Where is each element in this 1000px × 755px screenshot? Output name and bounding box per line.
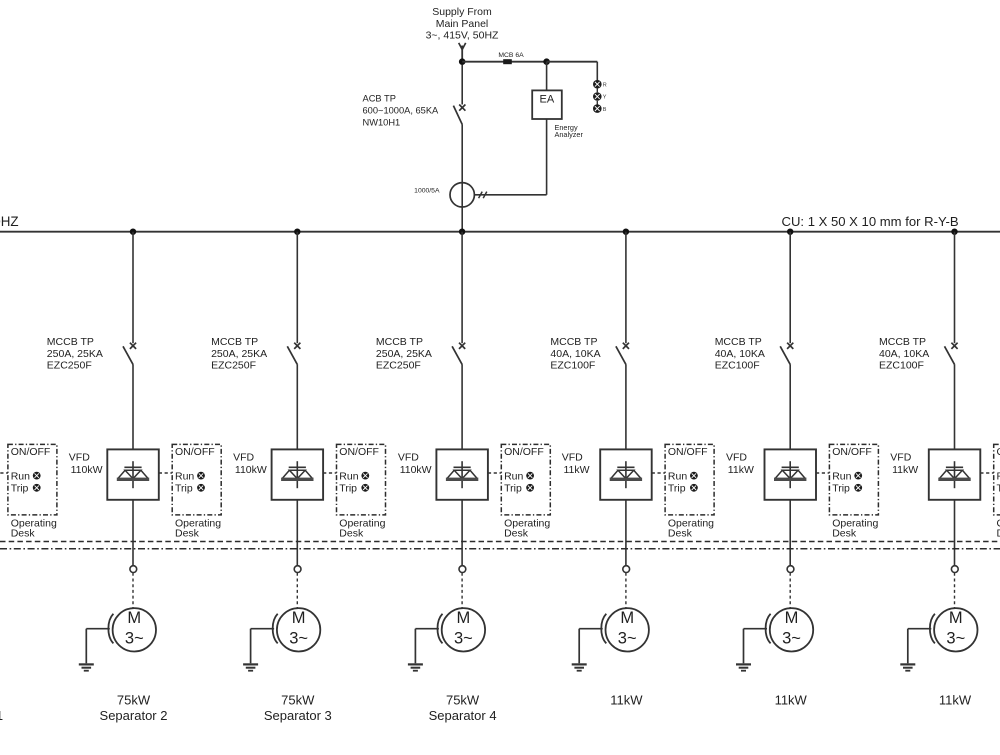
desk boundary dash-dot line [0, 548, 1000, 550]
breaker MCCB feeder 3 [287, 343, 300, 450]
svg-text:50HZ: 50HZ [0, 214, 19, 229]
wire: VFD 4 to desk box (dashed) [488, 472, 501, 474]
svg-text:Desk: Desk [11, 528, 36, 540]
wire: VFD 3 to terminal [296, 500, 298, 566]
svg-text:Main Panel: Main Panel [436, 18, 489, 30]
breaker MCCB feeder 6 [780, 343, 793, 450]
MCCB label feeder 7 [879, 336, 929, 372]
wire: terminal to motor (dashed) feeder 7 [954, 573, 956, 608]
lamp Run feeder 5 [690, 472, 698, 480]
svg-text:EZC100F: EZC100F [715, 359, 760, 371]
svg-text:Desk: Desk [504, 528, 529, 540]
svg-text:Desk: Desk [175, 528, 200, 540]
svg-text:M: M [292, 609, 306, 627]
svg-text:MCB 6A: MCB 6A [498, 52, 524, 59]
wire: VFD 4 to terminal [461, 500, 463, 566]
lamp Run feeder 2 [197, 472, 205, 480]
svg-text:Trip: Trip [504, 482, 522, 494]
wire: node J1 to node J2 [462, 61, 546, 63]
lamp Trip feeder 6 [854, 484, 862, 492]
VFD U5 [600, 449, 652, 499]
wire: terminal to motor (dashed) feeder 4 [461, 573, 463, 608]
MCCB label feeder 6 [715, 336, 765, 372]
wire between lamps [596, 101, 598, 105]
svg-text:VFD: VFD [890, 452, 911, 464]
lamp Run feeder 4 [526, 472, 534, 480]
svg-text:ON/OFF: ON/OFF [668, 446, 708, 458]
svg-text:75kW: 75kW [117, 693, 151, 708]
svg-text:Desk: Desk [668, 528, 693, 540]
VFD label feeder 7 [890, 452, 918, 477]
CT 1000/5A [414, 183, 474, 232]
VFD U3 [272, 449, 324, 499]
wire: terminal to motor (dashed) feeder 2 [132, 573, 134, 608]
wire: VFD 3 to desk box (dashed) [323, 472, 336, 474]
svg-text:11kW: 11kW [775, 693, 808, 708]
ground feeder 7 [900, 629, 931, 671]
lamp Trip feeder 2 [197, 484, 205, 492]
MCCB label feeder 3 [211, 336, 267, 372]
svg-text:B: B [603, 107, 607, 113]
ground feeder 5 [572, 629, 603, 671]
terminal circle feeder 2 [130, 566, 137, 573]
terminal circle feeder 5 [623, 566, 630, 573]
lamp Y [593, 92, 607, 101]
MCCB label feeder 4 [376, 336, 432, 372]
VFD U6 [765, 449, 817, 499]
breaker MCCB feeder 4 [452, 343, 465, 450]
svg-text:11kW: 11kW [564, 464, 590, 476]
node bus junction feeder 5 [623, 229, 629, 235]
svg-text:MCCB TP: MCCB TP [211, 336, 258, 348]
VFD U4 [436, 449, 488, 499]
svg-text:Run: Run [339, 470, 358, 482]
operating desk box feeder 1 [8, 444, 57, 515]
wire: VFD 6 to desk box (dashed) [816, 472, 829, 474]
svg-text:Trip: Trip [175, 482, 193, 494]
svg-text:11kW: 11kW [892, 464, 918, 476]
motor earth arc feeder 5 [601, 614, 606, 644]
supply arrow [459, 43, 466, 59]
ground feeder 3 [243, 629, 274, 671]
lamp Run feeder 3 [361, 472, 369, 480]
breaker MCCB feeder 5 [616, 343, 629, 450]
operating desk label feeder 5 [668, 518, 714, 540]
svg-text:11kW: 11kW [939, 693, 972, 708]
CT secondary marks [479, 192, 487, 199]
svg-text:110kW: 110kW [400, 464, 432, 476]
supply label [426, 6, 499, 42]
VFD label feeder 2 [69, 452, 103, 477]
svg-text:ON/OFF: ON/OFF [11, 446, 51, 458]
svg-text:MCCB TP: MCCB TP [879, 336, 926, 348]
desk boundary dashed line [0, 541, 1000, 543]
ground feeder 4 [408, 629, 439, 671]
motor earth arc feeder 4 [437, 614, 442, 644]
motor earth arc feeder 7 [930, 614, 935, 644]
svg-text:3~, 415V, 50HZ: 3~, 415V, 50HZ [426, 30, 499, 42]
wire: VFD 2 to desk box (dashed) [159, 472, 172, 474]
lamp Run feeder 1 [33, 472, 41, 480]
svg-text:EZC100F: EZC100F [550, 359, 595, 371]
svg-text:MCCB TP: MCCB TP [376, 336, 423, 348]
svg-text:250A, 25KA: 250A, 25KA [47, 348, 103, 360]
node bus junction feeder 3 [294, 229, 300, 235]
wire: VFD 5 to desk box (dashed) [652, 472, 665, 474]
wire: VFD 1 to desk box (dashed) [0, 472, 8, 474]
node bus junction feeder 6 [787, 229, 793, 235]
lamp R [593, 80, 607, 89]
svg-text:40A, 10KA: 40A, 10KA [550, 348, 600, 360]
svg-text:VFD: VFD [398, 452, 419, 464]
svg-text:Separator 2: Separator 2 [100, 708, 168, 723]
wire: node J2 to lamp branch [547, 61, 598, 63]
MCCB label feeder 2 [47, 336, 103, 372]
wire: VFD 6 to terminal [789, 500, 791, 566]
svg-text:VFD: VFD [69, 452, 90, 464]
svg-text:ON/OFF: ON/OFF [504, 446, 544, 458]
fuse MCB 6A [498, 52, 524, 64]
svg-text:Desk: Desk [339, 528, 364, 540]
svg-text:M: M [457, 609, 471, 627]
svg-text:Trip: Trip [997, 482, 1000, 494]
lamp Trip feeder 4 [526, 484, 534, 492]
svg-text:MCCB TP: MCCB TP [47, 336, 94, 348]
svg-text:NW10H1: NW10H1 [363, 117, 401, 127]
svg-text:Trip: Trip [832, 482, 850, 494]
motor M6 [770, 608, 813, 651]
svg-text:3~: 3~ [618, 630, 637, 648]
svg-text:3~: 3~ [289, 630, 308, 648]
svg-text:110kW: 110kW [235, 464, 267, 476]
wire: EA to CT [474, 119, 546, 195]
svg-text:EZC250F: EZC250F [47, 359, 92, 371]
svg-text:75kW: 75kW [446, 693, 480, 708]
motor earth arc feeder 6 [766, 614, 771, 644]
svg-text:Run: Run [504, 470, 523, 482]
svg-text:ACB TP: ACB TP [363, 93, 396, 103]
operating desk box feeder 2 [172, 444, 221, 515]
svg-text:Separator 1: Separator 1 [0, 708, 3, 723]
motor earth arc feeder 3 [273, 614, 278, 644]
operating desk box feeder 6 [829, 444, 878, 515]
wire: VFD 7 to desk box (dashed) [980, 472, 993, 474]
VFD U7 [929, 449, 981, 499]
terminal circle feeder 3 [294, 566, 301, 573]
wire: terminal to motor (dashed) feeder 6 [789, 573, 791, 608]
svg-text:EA: EA [540, 94, 555, 106]
operating desk box feeder 4 [501, 444, 550, 515]
svg-text:1000/5A: 1000/5A [414, 188, 440, 195]
lamp Trip feeder 3 [361, 484, 369, 492]
svg-text:Desk: Desk [997, 528, 1000, 540]
svg-text:ON/OFF: ON/OFF [997, 446, 1000, 458]
MCCB label feeder 5 [550, 336, 600, 372]
wire: terminal to motor (dashed) feeder 3 [296, 573, 298, 608]
svg-text:600~1000A, 65KA: 600~1000A, 65KA [363, 105, 440, 115]
operating desk label feeder 1 [11, 518, 57, 540]
wire between lamps [596, 89, 598, 93]
svg-text:Separator 4: Separator 4 [429, 708, 497, 723]
wire: bus to MCCB feeder 5 [625, 232, 627, 344]
svg-text:3~: 3~ [125, 630, 144, 648]
svg-text:40A, 10KA: 40A, 10KA [879, 348, 929, 360]
svg-text:Run: Run [668, 470, 687, 482]
VFD label feeder 3 [233, 452, 267, 477]
svg-text:MCCB TP: MCCB TP [550, 336, 597, 348]
svg-text:40A, 10KA: 40A, 10KA [715, 348, 765, 360]
lamp Run feeder 6 [854, 472, 862, 480]
operating desk label feeder 2 [175, 518, 221, 540]
bus bar [0, 231, 1000, 233]
energy analyzer U-EA [532, 62, 583, 139]
lamp Trip feeder 1 [33, 484, 41, 492]
motor M3 [277, 608, 320, 651]
svg-text:VFD: VFD [562, 452, 583, 464]
VFD label feeder 4 [398, 452, 432, 477]
svg-text:Analyzer: Analyzer [555, 130, 584, 139]
lamp Trip feeder 5 [690, 484, 698, 492]
svg-text:250A, 25KA: 250A, 25KA [211, 348, 267, 360]
svg-text:M: M [785, 609, 799, 627]
svg-text:Run: Run [11, 470, 30, 482]
svg-text:MCCB TP: MCCB TP [715, 336, 762, 348]
lamp B [593, 104, 607, 113]
wire: VFD 5 to terminal [625, 500, 627, 566]
operating desk label feeder 7 [997, 518, 1000, 540]
svg-text:VFD: VFD [726, 452, 747, 464]
svg-text:11kW: 11kW [728, 464, 754, 476]
svg-text:Supply From: Supply From [432, 6, 492, 18]
wire: terminal to motor (dashed) feeder 5 [625, 573, 627, 608]
breaker ACB [453, 65, 465, 183]
wire: bus to MCCB feeder 2 [132, 232, 134, 344]
svg-text:3~: 3~ [782, 630, 801, 648]
wire: VFD 2 to terminal [132, 500, 134, 566]
wire: bus to MCCB feeder 7 [954, 232, 956, 344]
VFD U2 [107, 449, 159, 499]
svg-text:Y: Y [603, 95, 607, 101]
node bus junction feeder 4 [459, 229, 465, 235]
breaker MCCB feeder 7 [945, 343, 958, 450]
node bus junction feeder 7 [951, 229, 957, 235]
ACB label [363, 93, 440, 127]
operating desk box feeder 5 [665, 444, 714, 515]
svg-text:R: R [603, 82, 607, 88]
svg-text:Run: Run [175, 470, 194, 482]
breaker MCCB feeder 2 [123, 343, 136, 450]
node J2 [543, 58, 550, 65]
terminal circle feeder 4 [459, 566, 466, 573]
svg-text:Run: Run [832, 470, 851, 482]
svg-text:EZC250F: EZC250F [376, 359, 421, 371]
svg-text:EZC250F: EZC250F [211, 359, 256, 371]
svg-text:Trip: Trip [668, 482, 686, 494]
svg-text:3~: 3~ [454, 630, 473, 648]
svg-text:Separator 3: Separator 3 [264, 708, 332, 723]
ground feeder 6 [736, 629, 767, 671]
motor earth arc feeder 2 [108, 614, 113, 644]
wire: VFD 7 to terminal [954, 500, 956, 566]
VFD label feeder 6 [726, 452, 754, 477]
svg-text:75kW: 75kW [281, 693, 315, 708]
svg-text:ON/OFF: ON/OFF [175, 446, 215, 458]
operating desk label feeder 4 [504, 518, 550, 540]
wire: bus to MCCB feeder 3 [296, 232, 298, 344]
terminal circle feeder 6 [787, 566, 794, 573]
wire: bus to MCCB feeder 6 [789, 232, 791, 344]
svg-text:ON/OFF: ON/OFF [339, 446, 379, 458]
motor M7 [934, 608, 977, 651]
svg-text:M: M [127, 609, 141, 627]
svg-text:Trip: Trip [339, 482, 357, 494]
motor M5 [606, 608, 649, 651]
operating desk label feeder 3 [339, 518, 385, 540]
svg-text:250A, 25KA: 250A, 25KA [376, 348, 432, 360]
node bus junction feeder 2 [130, 229, 136, 235]
svg-text:M: M [949, 609, 963, 627]
svg-text:Run: Run [997, 470, 1000, 482]
svg-text:3~: 3~ [946, 630, 965, 648]
terminal circle feeder 7 [951, 566, 958, 573]
svg-text:110kW: 110kW [71, 464, 103, 476]
operating desk box feeder 7 [994, 444, 1000, 515]
svg-text:ON/OFF: ON/OFF [832, 446, 872, 458]
operating desk box feeder 3 [337, 444, 386, 515]
operating desk label feeder 6 [832, 518, 878, 540]
svg-text:VFD: VFD [233, 452, 254, 464]
svg-text:11kW: 11kW [610, 693, 643, 708]
wire: down to lamps [596, 62, 598, 80]
node J1 [459, 58, 466, 65]
ground feeder 2 [79, 629, 110, 671]
VFD label feeder 5 [562, 452, 590, 477]
motor M4 [442, 608, 485, 651]
svg-text:EZC100F: EZC100F [879, 359, 924, 371]
svg-text:CU: 1 X 50 X 10 mm for R-Y-B: CU: 1 X 50 X 10 mm for R-Y-B [782, 214, 959, 229]
svg-text:Trip: Trip [11, 482, 29, 494]
svg-text:M: M [620, 609, 634, 627]
wire: bus to MCCB feeder 4 [461, 232, 463, 344]
svg-text:Desk: Desk [832, 528, 857, 540]
motor M2 [113, 608, 156, 651]
